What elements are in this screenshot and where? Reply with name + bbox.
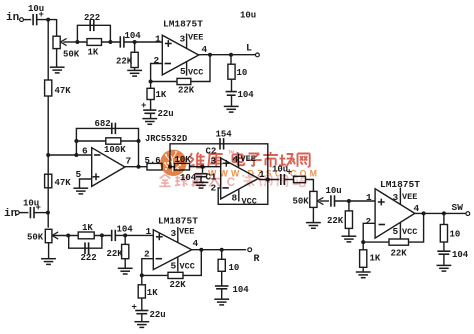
svg-text:IC: IC: [219, 177, 240, 189]
svg-text:22u: 22u: [150, 310, 166, 320]
svg-text:10u: 10u: [326, 186, 342, 196]
resistor 10K to pot: [285, 179, 294, 181]
wire cap to node B: [34, 212, 49, 214]
svg-text:104: 104: [125, 31, 142, 41]
wire U1 output to L terminal: [199, 54, 256, 56]
svg-text:47K: 47K: [55, 178, 72, 188]
ground zobel-R: [214, 298, 229, 300]
svg-text:L: L: [246, 44, 252, 55]
wire left rail bottom: [47, 155, 49, 228]
svg-text:22K: 22K: [170, 280, 187, 290]
svg-text:in: in: [4, 208, 17, 220]
watermark text 维库电子市场网: [190, 153, 206, 168]
svg-text:JRC5532D: JRC5532D: [145, 134, 187, 144]
wire 10u to pin1 SW: [335, 200, 376, 202]
node X junction: [168, 165, 172, 169]
svg-text:1K: 1K: [147, 288, 158, 298]
svg-text:2: 2: [144, 249, 150, 260]
svg-text:682: 682: [95, 119, 111, 129]
wire down to pot: [56, 19, 58, 36]
wire 104 to pin1 R: [115, 234, 153, 236]
wire U2B output: [258, 179, 279, 181]
wire wiper to feedback node: [75, 40, 79, 44]
svg-text:5.6: 5.6: [145, 156, 161, 166]
wire 104 to pin1: [124, 41, 162, 43]
wire input-R to cap: [19, 212, 28, 214]
capacitor 222 L (parallel): [77, 25, 110, 42]
resistor 5.6K: [147, 163, 162, 170]
ground 22K-R: [118, 267, 133, 269]
svg-text:47K: 47K: [55, 86, 72, 96]
ground zobel-L: [224, 105, 239, 107]
capacitor 10u input L: [32, 14, 34, 25]
resistor 22K U1 feedback: [177, 78, 191, 84]
svg-text:8: 8: [232, 193, 238, 204]
capacitor 104 zobel R: [221, 271, 223, 286]
capacitor 10u filter-out: [280, 174, 282, 185]
svg-text:4: 4: [193, 238, 199, 249]
node A junction: [46, 18, 50, 22]
svg-text:10: 10: [237, 68, 248, 78]
svg-text:LM1875T: LM1875T: [163, 19, 203, 30]
resistor 10K: [170, 166, 221, 168]
resistor 10 zobel SW: [443, 213, 445, 224]
svg-text:50K: 50K: [293, 197, 310, 207]
wire C to node A: [37, 19, 57, 21]
svg-text:22K: 22K: [178, 86, 195, 96]
node U4 fb junction: [140, 273, 144, 277]
ground pot-L: [50, 66, 65, 68]
resistor 22K U3 feedback: [389, 239, 409, 245]
svg-text:VEE: VEE: [188, 33, 203, 43]
svg-text:VCC: VCC: [188, 68, 203, 78]
resistor 1K U1 gain: [150, 82, 152, 89]
svg-text:100K: 100K: [104, 145, 126, 155]
svg-text:222: 222: [84, 13, 100, 23]
svg-text:VEE: VEE: [179, 227, 194, 237]
capacitor 22u U4: [141, 298, 143, 311]
capacitor 104 zobel SW: [443, 242, 445, 251]
wire fb to pin2 SW: [363, 223, 375, 242]
svg-text:+: +: [39, 10, 44, 20]
svg-text:3: 3: [171, 228, 177, 239]
svg-text:10u: 10u: [240, 11, 256, 21]
ground 22u-R: [134, 321, 149, 323]
svg-text:5: 5: [171, 261, 177, 272]
node pin1-L junction: [133, 40, 137, 44]
svg-text:1: 1: [366, 192, 372, 203]
resistor 10 zobel L: [230, 55, 232, 64]
feedback wire U2B unity: [218, 180, 268, 205]
node pin1-R junction: [123, 233, 127, 237]
capacitor 104 zobel L: [231, 79, 233, 91]
svg-text:50K: 50K: [63, 50, 80, 60]
svg-text:4: 4: [414, 203, 420, 214]
feedback network U2A: 682 cap + 100K: [76, 128, 138, 166]
wire U2A out: [125, 166, 147, 168]
watermark logo circle: [160, 150, 186, 176]
ground zobel-SW: [437, 264, 452, 266]
capacitor 222 R (parallel): [69, 235, 102, 248]
node 100K left junction: [74, 139, 78, 143]
ground pot-R: [41, 258, 56, 260]
svg-text:22u: 22u: [158, 109, 174, 119]
svg-text:104: 104: [452, 250, 469, 260]
wire U3 output to SW terminal: [415, 212, 466, 214]
svg-text:SW: SW: [452, 202, 464, 213]
capacitor 682: [111, 123, 113, 134]
node zobel-L junction: [229, 53, 233, 57]
wire pin5 to ground: [80, 179, 92, 188]
ground 1K-SW: [356, 271, 371, 273]
node R terminal: [248, 248, 252, 252]
svg-text:104: 104: [117, 225, 134, 235]
svg-text:1K: 1K: [156, 90, 167, 100]
wire fb to pin2: [151, 64, 163, 82]
wire input-L to C1: [23, 19, 31, 21]
svg-text:+: +: [36, 203, 41, 213]
svg-text:1K: 1K: [82, 223, 93, 233]
svg-text:22K: 22K: [116, 57, 133, 67]
svg-text:2: 2: [366, 216, 372, 227]
svg-text:50K: 50K: [27, 233, 44, 243]
ground pot-SW: [306, 222, 321, 224]
node 100K right junction: [137, 139, 141, 143]
svg-text:104: 104: [238, 90, 255, 100]
node pin1-SW junction: [347, 199, 351, 203]
svg-text:VCC: VCC: [402, 227, 417, 237]
potentiometer 50K L volume: [53, 36, 60, 48]
svg-text:22K: 22K: [107, 249, 124, 259]
node U1 out junction: [208, 53, 212, 57]
resistor 1K R series: [68, 235, 111, 237]
svg-text:22K: 22K: [391, 249, 408, 259]
svg-text:1: 1: [146, 226, 152, 237]
potentiometer 50K SW: [310, 191, 317, 207]
resistor 22K SW input: [348, 201, 350, 211]
capacitor 104 R series: [111, 230, 113, 241]
node fb-A junction: [74, 153, 78, 157]
svg-text:1K: 1K: [370, 254, 381, 264]
potentiometer 50K R volume: [45, 229, 52, 242]
svg-text:VEE: VEE: [402, 192, 417, 202]
node junction 1K/222 right R: [100, 233, 104, 237]
op-amp U2B JRC5532D: [221, 158, 259, 199]
svg-text:LM1875T: LM1875T: [158, 216, 198, 227]
capacitor 22u U1: [150, 100, 152, 111]
feedback wire U3: [363, 213, 423, 242]
capacitor C1 104: [202, 167, 204, 173]
left rail wire L-input to mix node: [47, 20, 49, 155]
svg-text:3: 3: [393, 192, 399, 203]
resistor 47K lower (R to mix): [45, 174, 52, 188]
resistor 22K U4 feedback: [168, 272, 183, 278]
svg-text:1: 1: [155, 34, 161, 45]
capacitor 10u SW: [330, 195, 332, 206]
svg-text:222: 222: [81, 253, 97, 263]
resistor 1K L series: [77, 41, 120, 43]
resistor 100K: [76, 140, 138, 142]
capacitor 104 L series: [119, 36, 121, 47]
svg-text:5: 5: [393, 226, 399, 237]
svg-text:7: 7: [126, 156, 132, 167]
node U1 fb junction: [149, 80, 153, 84]
svg-text:10: 10: [229, 263, 240, 273]
wire to SW pot: [306, 180, 314, 192]
node junction 1K/222 right: [108, 40, 112, 44]
svg-text:4: 4: [202, 44, 208, 55]
capacitor 154 C2 loop: [170, 144, 268, 180]
node Y junction: [201, 165, 205, 169]
wire pot to ground: [48, 243, 50, 259]
feedback wire U1: [151, 55, 210, 82]
wire pot to ground: [56, 49, 58, 67]
svg-text:VCC: VCC: [180, 262, 195, 272]
ground 22K-L: [127, 69, 142, 71]
svg-text:22K: 22K: [327, 216, 344, 226]
wire pot to ground: [312, 207, 314, 222]
resistor 22K R input-bias: [124, 235, 126, 244]
svg-text:2: 2: [154, 55, 160, 66]
svg-text:TM: TM: [228, 150, 235, 155]
resistor 10 zobel R: [221, 250, 223, 260]
svg-text:10: 10: [450, 230, 461, 240]
wire U4 output to R terminal: [192, 249, 247, 251]
wire fb to pin2 R: [142, 259, 154, 276]
ground 22K-SW: [342, 235, 357, 237]
svg-text:in: in: [6, 12, 19, 24]
svg-text:104: 104: [233, 285, 250, 295]
node B junction: [46, 211, 50, 215]
feedback wire U4: [142, 250, 202, 276]
ground 22u-L: [142, 118, 157, 120]
svg-text:6: 6: [82, 146, 88, 157]
svg-text:R: R: [254, 254, 260, 265]
resistor 22K L input-bias: [134, 42, 136, 52]
watermark text 全球最大IC采购网站: [159, 175, 170, 187]
svg-text:3: 3: [180, 34, 186, 45]
ground C1: [194, 181, 209, 183]
wire mix node to pin6: [46, 153, 50, 157]
resistor 1K U4: [141, 275, 143, 284]
svg-text:154: 154: [216, 130, 233, 140]
node wiper R junction: [66, 234, 70, 238]
resistor 1K U3: [362, 242, 364, 250]
node U3 fb junction: [361, 240, 365, 244]
svg-text:1K: 1K: [88, 48, 99, 58]
capacitor 10u input R: [29, 207, 31, 218]
ground U2A pin5: [73, 187, 88, 189]
resistor 47K upper: [45, 80, 52, 96]
svg-text:5: 5: [180, 66, 186, 77]
